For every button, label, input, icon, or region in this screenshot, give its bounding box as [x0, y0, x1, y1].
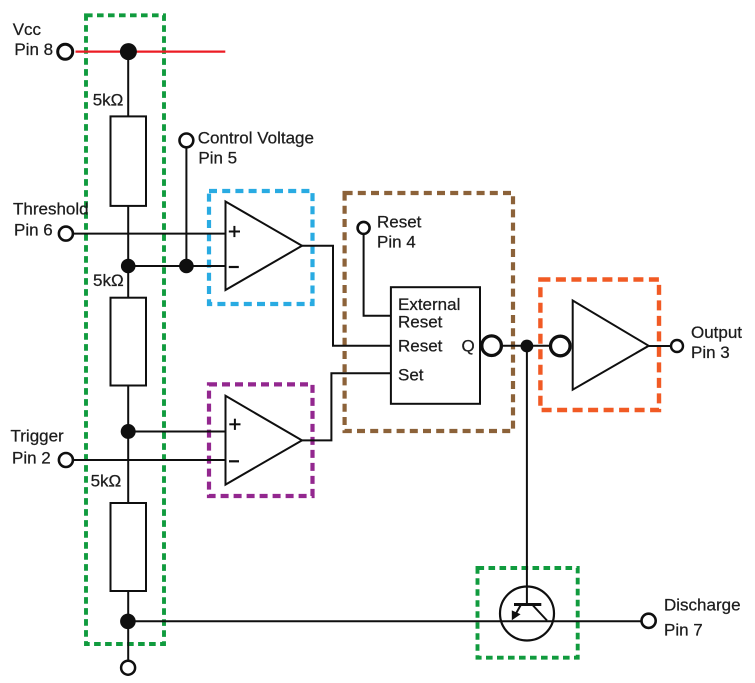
wire Trigger pin 2 to comparator U2 - input: [73, 459, 226, 461]
junction dot control voltage node: [179, 259, 194, 274]
buffer input bubble: [551, 336, 571, 356]
svg-text:5kΩ: 5kΩ: [91, 471, 122, 490]
wire Q bubble to output buffer bubble: [501, 345, 551, 347]
pin terminal Threshold pin 6: [59, 227, 73, 241]
transistor Q1 base bar: [514, 603, 541, 606]
svg-text:Pin 2: Pin 2: [12, 448, 51, 467]
svg-text:Control Voltage: Control Voltage: [198, 128, 314, 147]
pin terminal Vcc pin 8: [58, 44, 73, 59]
comparator U1 group box (blue dashed): [209, 191, 313, 304]
svg-text:Discharge: Discharge: [664, 595, 741, 614]
junction dot ground rail node: [120, 614, 136, 630]
output buffer U4 triangle: [573, 301, 649, 390]
U1 plus input mark: [229, 226, 240, 237]
resistor R2 5k: [111, 298, 147, 386]
wire Vcc rail (red): [76, 50, 226, 52]
op-amp U2 comparator triangle: [226, 396, 303, 485]
pin terminal Reset pin 4: [358, 222, 370, 234]
output stage group box (orange dashed): [540, 280, 659, 411]
svg-text:Output: Output: [691, 323, 742, 342]
wire Reset pin 4 to flip-flop External Reset input: [364, 234, 391, 316]
wire comparator U2 output to flip-flop Set input: [302, 373, 391, 440]
transistor Q1 emitter with arrow: [514, 606, 521, 618]
pin terminal Control Voltage pin 5: [180, 134, 194, 148]
voltage divider group box (green dashed): [86, 15, 164, 644]
svg-text:Pin 7: Pin 7: [664, 620, 703, 639]
wire Q node down to transistor base: [526, 346, 528, 604]
svg-text:Q: Q: [462, 336, 475, 355]
wire buffer output to Output pin 3: [649, 345, 671, 347]
wire R3 bottom to ground node: [127, 591, 129, 661]
U2 plus input mark: [229, 419, 240, 430]
Q output bubble: [482, 336, 502, 356]
svg-text:Pin 4: Pin 4: [377, 232, 416, 251]
junction dot Vcc node: [120, 43, 137, 60]
transistor Q1 circle: [500, 587, 554, 641]
transistor Q1 collector: [533, 606, 547, 621]
svg-text:Reset: Reset: [398, 336, 443, 355]
svg-text:Threshold: Threshold: [13, 199, 89, 218]
node A junction (Q to buffer and transistor): [521, 340, 534, 353]
junction dot divider upper node: [121, 259, 136, 274]
pin terminal Trigger pin 2: [59, 453, 73, 467]
svg-text:Pin 8: Pin 8: [14, 40, 53, 59]
resistor R1 5k: [111, 116, 147, 205]
U1 minus input mark: [229, 266, 239, 268]
pin terminal Output pin 3: [671, 340, 683, 352]
svg-text:Pin 5: Pin 5: [198, 148, 237, 167]
wire R1 bottom to R2 top: [127, 206, 129, 298]
resistor R3 5k: [111, 503, 147, 591]
wire divider node to comparator U2 + input: [128, 431, 225, 433]
U2 minus input mark: [229, 460, 239, 462]
flip-flop group box (brown dashed): [345, 193, 513, 431]
comparator U2 group box (purple dashed): [209, 384, 313, 496]
wire divider node to comparator U1 - input: [128, 265, 225, 267]
svg-text:Pin 6: Pin 6: [14, 220, 53, 239]
ground terminal pin 1: [121, 661, 135, 675]
wire Control Voltage pin 5 down to node: [185, 147, 187, 266]
svg-text:Reset: Reset: [398, 313, 443, 332]
svg-text:5kΩ: 5kΩ: [93, 271, 124, 290]
svg-text:Set: Set: [398, 366, 424, 385]
wire R2 bottom to R3 top: [127, 386, 129, 504]
wire Threshold pin 6 to comparator U1 + input: [73, 233, 226, 235]
svg-text:Pin 3: Pin 3: [691, 343, 730, 362]
svg-text:Vcc: Vcc: [13, 20, 42, 39]
wire comparator U1 output to flip-flop Reset input: [302, 246, 391, 346]
svg-text:Trigger: Trigger: [11, 426, 65, 445]
discharge transistor group box (green dashed): [478, 568, 578, 658]
svg-text:5kΩ: 5kΩ: [93, 90, 124, 109]
svg-text:External: External: [398, 295, 460, 314]
pin terminal Discharge pin 7: [642, 614, 656, 628]
wire Vcc junction to R1 top: [127, 52, 129, 117]
flip-flop U3 body: [391, 287, 480, 404]
op-amp U1 comparator triangle: [226, 202, 303, 291]
junction dot divider lower node: [121, 424, 136, 439]
svg-text:Reset: Reset: [377, 212, 422, 231]
wire ground node to Discharge pin 7: [128, 620, 641, 622]
